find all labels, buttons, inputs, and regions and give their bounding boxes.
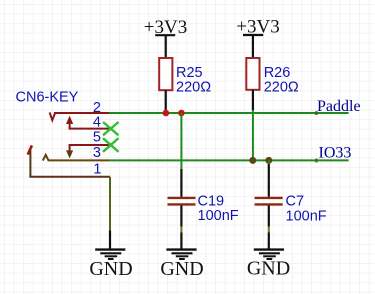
resistor R25	[159, 58, 211, 113]
jack sleeve stem	[29, 150, 31, 177]
switch arrow pin4 to pin2 (up)	[66, 116, 73, 129]
pin 2 jack tip contact (v mark)	[50, 112, 56, 120]
pin 4	[69, 128, 111, 130]
svg-text:2: 2	[93, 100, 101, 116]
svg-text:220Ω: 220Ω	[176, 80, 211, 96]
svg-text:GND: GND	[247, 258, 290, 280]
svg-text:R25: R25	[176, 65, 203, 81]
svg-text:220Ω: 220Ω	[264, 80, 299, 96]
junction dot C19/Paddle	[178, 110, 185, 117]
power port +3V3 (right)	[236, 17, 279, 59]
svg-text:R26: R26	[264, 65, 291, 81]
power port +3V3 (left)	[144, 17, 187, 58]
svg-text:C19: C19	[198, 193, 225, 209]
wire pin1 to GND (vertical)	[109, 177, 111, 231]
no-ERC cross pin 4	[103, 122, 119, 135]
svg-text:5: 5	[93, 130, 101, 146]
wire net Paddle (horizontal)	[109, 112, 349, 114]
svg-text:IO33: IO33	[319, 145, 352, 162]
pin 1	[29, 176, 110, 178]
ground GND (left)	[89, 231, 132, 281]
svg-text:CN6-KEY: CN6-KEY	[16, 90, 79, 106]
svg-text:3: 3	[93, 145, 101, 161]
svg-text:GND: GND	[160, 258, 203, 280]
svg-text:Paddle: Paddle	[317, 98, 361, 115]
net label anchor tick Paddle	[315, 111, 317, 115]
jack sleeve contact tick	[28, 145, 32, 154]
svg-text:1: 1	[93, 161, 101, 177]
net label anchor tick IO33	[315, 159, 317, 163]
junction dot C7/IO33	[265, 157, 272, 164]
pin 5	[69, 144, 111, 146]
ground GND (right)	[247, 233, 290, 280]
svg-text:C7: C7	[286, 193, 305, 209]
wire net IO33 (horizontal)	[109, 159, 349, 161]
capacitor C7	[255, 160, 327, 232]
svg-text:100nF: 100nF	[286, 209, 327, 225]
junction dot R25/Paddle	[163, 110, 170, 117]
pin 2	[54, 112, 109, 114]
ground GND (middle)	[160, 233, 203, 281]
svg-text:100nF: 100nF	[198, 208, 239, 224]
junction dot R26/IO33	[249, 157, 256, 164]
switch arrow pin5 to pin3 (down)	[66, 145, 73, 158]
pin 3	[48, 159, 110, 161]
no-ERC cross pin 5	[103, 138, 119, 152]
wire R26 to IO33 (vertical)	[252, 110, 254, 160]
svg-text:4: 4	[93, 115, 101, 131]
pin 3 jack tip contact (^ mark)	[43, 155, 49, 161]
svg-text:GND: GND	[89, 258, 132, 280]
capacitor C19	[168, 113, 239, 233]
resistor R26	[246, 58, 299, 110]
